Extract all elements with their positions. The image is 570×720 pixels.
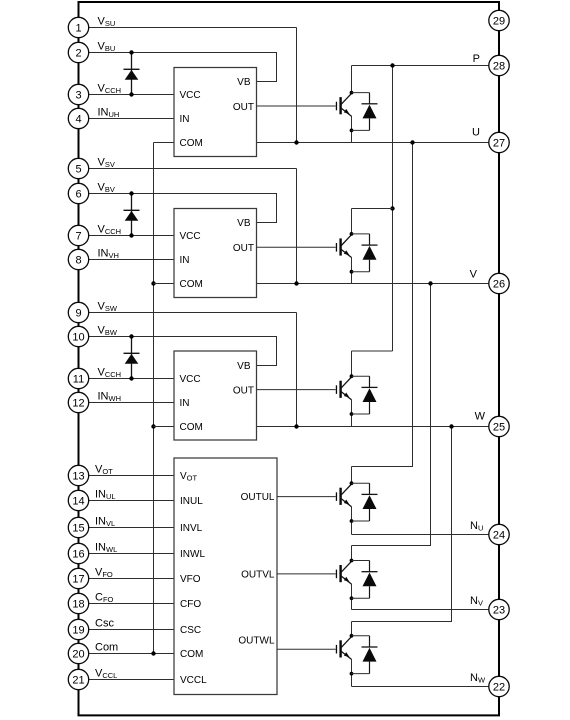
junction P bus / V high collector bbox=[390, 206, 394, 210]
wire INWL pin16 to LVIC bbox=[79, 553, 175, 555]
svg-text:VCCL: VCCL bbox=[180, 675, 207, 686]
wire VSU vertical to node U bbox=[296, 28, 298, 143]
wire INVL pin15 to LVIC bbox=[79, 527, 175, 529]
svg-text:COM: COM bbox=[180, 138, 203, 149]
wire VSW vertical to node W bbox=[296, 313, 298, 427]
wire VSW pin9 to VS vertical bbox=[79, 312, 297, 314]
svg-text:OUTWL: OUTWL bbox=[238, 636, 275, 647]
pin 19 bbox=[68, 619, 88, 639]
module outline frame bbox=[79, 2, 500, 715]
op-amp U1 (U-phase HVIC) high-side gate driver block bbox=[174, 68, 257, 157]
svg-text:INVL: INVL bbox=[95, 515, 115, 528]
pin 16 bbox=[68, 543, 88, 563]
transistor Q6 (W low) bbox=[277, 622, 353, 687]
pin 11 bbox=[68, 368, 88, 388]
wire COM pin20 to LVIC bbox=[79, 653, 175, 655]
svg-text:VSU: VSU bbox=[98, 15, 116, 28]
op-amp U3 (W-phase HVIC) high-side gate driver block bbox=[174, 351, 257, 440]
svg-text:U: U bbox=[472, 127, 480, 139]
pin 4 bbox=[68, 108, 88, 128]
op-amp U4 low-side LVIC block bbox=[174, 458, 277, 695]
wire node P to pin28 bbox=[352, 65, 500, 67]
wire INWH pin12 to driver IN bbox=[79, 402, 175, 404]
svg-text:23: 23 bbox=[493, 605, 505, 617]
svg-text:CFO: CFO bbox=[180, 599, 201, 610]
svg-text:17: 17 bbox=[72, 574, 84, 586]
svg-text:VCCL: VCCL bbox=[95, 667, 117, 680]
wire node NV to pin23 bbox=[352, 609, 500, 611]
svg-text:W: W bbox=[475, 411, 486, 423]
pin 8 bbox=[68, 249, 88, 269]
transistor Q1 (U high) bbox=[257, 66, 354, 143]
pin 17 bbox=[68, 568, 88, 588]
wire CFO pin18 to LVIC bbox=[79, 603, 175, 605]
pin 29 bbox=[489, 10, 509, 30]
svg-text:OUTVL: OUTVL bbox=[241, 569, 275, 580]
diode D6 freewheel bbox=[352, 636, 378, 674]
pin 25 bbox=[489, 416, 509, 436]
svg-text:VB: VB bbox=[237, 218, 251, 229]
svg-text:OUTUL: OUTUL bbox=[241, 492, 275, 503]
wire V high collector branch bbox=[352, 208, 393, 210]
svg-text:4: 4 bbox=[75, 114, 81, 126]
transistor Q3 (W high) bbox=[257, 351, 354, 427]
svg-text:VFO: VFO bbox=[180, 574, 201, 585]
svg-text:10: 10 bbox=[72, 332, 84, 344]
svg-text:COM: COM bbox=[180, 279, 203, 290]
svg-text:VCCH: VCCH bbox=[98, 82, 122, 95]
svg-text:CFO: CFO bbox=[95, 591, 114, 604]
svg-text:VOT: VOT bbox=[95, 463, 113, 476]
transistor Q2 (V high) bbox=[257, 209, 354, 284]
junction COM bus / pin20 Com bbox=[151, 651, 155, 655]
pin 6 bbox=[68, 183, 88, 203]
svg-text:VCC: VCC bbox=[180, 90, 201, 101]
wire W high collector branch bbox=[352, 350, 393, 352]
svg-text:14: 14 bbox=[72, 496, 84, 508]
svg-text:24: 24 bbox=[493, 530, 505, 542]
wire VOT pin13 to LVIC bbox=[79, 475, 175, 477]
transistor Q4 (U low) bbox=[277, 467, 353, 535]
svg-text:9: 9 bbox=[75, 308, 81, 320]
pin 24 bbox=[489, 524, 509, 544]
wire VSV pin5 to VS vertical bbox=[79, 168, 297, 170]
svg-text:IN: IN bbox=[180, 398, 190, 409]
pin 28 bbox=[489, 55, 509, 75]
wire node NU to pin24 bbox=[352, 534, 500, 536]
svg-text:INUH: INUH bbox=[98, 106, 120, 119]
diode D3 freewheel bbox=[352, 376, 378, 414]
svg-text:VCCH: VCCH bbox=[98, 366, 122, 379]
svg-text:19: 19 bbox=[72, 625, 84, 637]
svg-text:OUT: OUT bbox=[233, 243, 254, 254]
wire VSU pin1 to VS vertical bbox=[79, 27, 297, 29]
junction P bus / node P bbox=[390, 63, 394, 67]
svg-text:VSV: VSV bbox=[98, 156, 115, 169]
svg-text:NU: NU bbox=[470, 520, 483, 533]
wire VBU pin2 to VB elbow of U driver bbox=[79, 53, 277, 82]
diode D1 freewheel bbox=[352, 93, 378, 131]
svg-text:INWH: INWH bbox=[98, 390, 122, 403]
svg-text:NW: NW bbox=[470, 672, 486, 685]
svg-text:26: 26 bbox=[493, 279, 505, 291]
svg-text:INWL: INWL bbox=[95, 541, 117, 554]
pin 26 bbox=[489, 273, 509, 293]
bootstrap diode DBW (VCCH-VBW) bbox=[124, 334, 140, 380]
svg-text:20: 20 bbox=[72, 649, 84, 661]
pin 14 bbox=[68, 490, 88, 510]
wire V low collector bus bbox=[352, 284, 431, 546]
pin 23 bbox=[489, 599, 509, 619]
svg-text:28: 28 bbox=[493, 61, 505, 73]
pin 2 bbox=[68, 42, 88, 62]
wire VCCH(V) pin7 to driver VCC bbox=[79, 235, 175, 237]
svg-text:13: 13 bbox=[72, 471, 84, 483]
wire VCCH(U) pin3 to driver VCC bbox=[79, 94, 175, 96]
pin 18 bbox=[68, 593, 88, 613]
wire P bus vertical bbox=[392, 66, 394, 352]
wire VSV vertical to node V bbox=[296, 169, 298, 284]
pin 15 bbox=[68, 517, 88, 537]
pin 10 bbox=[68, 326, 88, 346]
wire W low collector bus bbox=[352, 427, 452, 622]
junction node W / W low bus bbox=[449, 424, 453, 428]
svg-text:VSW: VSW bbox=[98, 300, 118, 313]
svg-text:VB: VB bbox=[237, 361, 251, 372]
svg-text:VFO: VFO bbox=[95, 566, 113, 579]
wire VFO pin17 to LVIC bbox=[79, 578, 175, 580]
wire INUL pin14 to LVIC bbox=[79, 500, 175, 502]
svg-text:V: V bbox=[470, 269, 478, 281]
svg-text:VOT: VOT bbox=[180, 471, 198, 483]
pin 21 bbox=[68, 669, 88, 689]
svg-text:11: 11 bbox=[73, 374, 84, 386]
wire VCCL pin21 to LVIC bbox=[79, 679, 175, 681]
pin 13 bbox=[68, 465, 88, 485]
svg-text:Csc: Csc bbox=[95, 617, 114, 629]
svg-text:INVL: INVL bbox=[180, 523, 203, 534]
wire node W : COM bus to pin25 bbox=[154, 426, 500, 428]
svg-text:INWL: INWL bbox=[180, 549, 205, 560]
wire INUH pin4 to driver IN bbox=[79, 118, 175, 120]
svg-text:P: P bbox=[473, 53, 480, 65]
bootstrap diode DBU (VCCH-VBU) bbox=[124, 50, 140, 96]
svg-text:COM: COM bbox=[180, 649, 203, 660]
transistor Q5 (V low) bbox=[277, 546, 353, 610]
svg-text:7: 7 bbox=[75, 231, 81, 243]
svg-text:16: 16 bbox=[72, 549, 84, 561]
diode D5 freewheel bbox=[352, 561, 378, 599]
svg-text:1: 1 bbox=[75, 23, 81, 35]
svg-text:COM: COM bbox=[180, 422, 203, 433]
svg-text:3: 3 bbox=[75, 90, 81, 102]
pin 5 bbox=[68, 158, 88, 178]
pin 3 bbox=[68, 84, 88, 104]
pin 20 bbox=[68, 643, 88, 663]
svg-text:INUL: INUL bbox=[180, 496, 203, 507]
pin 7 bbox=[68, 225, 88, 245]
svg-text:INUL: INUL bbox=[95, 488, 116, 501]
svg-text:Com: Com bbox=[95, 641, 118, 653]
svg-text:12: 12 bbox=[72, 398, 84, 410]
wire INVH pin8 to driver IN bbox=[79, 259, 175, 261]
wire node U : COM bus to pin27 bbox=[154, 142, 500, 144]
svg-text:NV: NV bbox=[470, 595, 483, 608]
svg-text:IN: IN bbox=[180, 114, 190, 125]
svg-text:VBU: VBU bbox=[98, 40, 116, 53]
pin 12 bbox=[68, 392, 88, 412]
junction node U / U low bus bbox=[410, 140, 414, 144]
junction COM bus / W driver COM bbox=[151, 424, 155, 428]
svg-text:6: 6 bbox=[75, 189, 81, 201]
svg-text:29: 29 bbox=[493, 16, 505, 28]
svg-text:VBW: VBW bbox=[98, 324, 118, 337]
svg-text:8: 8 bbox=[75, 255, 81, 267]
svg-text:VCC: VCC bbox=[180, 231, 201, 242]
svg-text:CSC: CSC bbox=[180, 625, 201, 636]
svg-text:21: 21 bbox=[72, 675, 84, 687]
svg-text:5: 5 bbox=[75, 164, 81, 176]
svg-text:VCCH: VCCH bbox=[98, 223, 122, 236]
svg-text:VCC: VCC bbox=[180, 374, 201, 385]
bootstrap diode DBV (VCCH-VBV) bbox=[124, 191, 140, 237]
wire node V : COM bus to pin26 bbox=[154, 283, 500, 285]
svg-text:2: 2 bbox=[75, 48, 81, 60]
wire VCCH(W) pin11 to driver VCC bbox=[79, 378, 175, 380]
pin 27 bbox=[489, 132, 509, 152]
svg-text:OUT: OUT bbox=[233, 102, 254, 113]
wire U low collector bus bbox=[352, 143, 413, 467]
svg-text:18: 18 bbox=[72, 599, 84, 611]
svg-text:27: 27 bbox=[493, 138, 505, 150]
svg-text:INVH: INVH bbox=[98, 247, 119, 260]
diode D4 freewheel bbox=[352, 483, 378, 521]
svg-text:15: 15 bbox=[72, 523, 84, 535]
pin 9 bbox=[68, 302, 88, 322]
svg-text:VB: VB bbox=[237, 77, 251, 88]
svg-text:25: 25 bbox=[493, 422, 505, 434]
svg-text:IN: IN bbox=[180, 255, 190, 266]
diode D2 freewheel bbox=[352, 234, 378, 272]
junction node V / V low bus bbox=[428, 281, 432, 285]
wire VBW pin10 to VB elbow of W driver bbox=[79, 337, 277, 366]
wire COM bus (left vertical) bbox=[153, 143, 155, 654]
svg-text:22: 22 bbox=[493, 682, 505, 694]
op-amp U2 (V-phase HVIC) high-side gate driver block bbox=[174, 209, 257, 298]
svg-text:OUT: OUT bbox=[233, 385, 254, 396]
svg-text:VBV: VBV bbox=[98, 181, 115, 194]
pin 22 bbox=[489, 676, 509, 696]
pin 1 bbox=[68, 17, 88, 37]
wire CSC pin19 to LVIC bbox=[79, 629, 175, 631]
junction COM bus / V driver COM bbox=[151, 281, 155, 285]
wire VBV pin6 to VB elbow of V driver bbox=[79, 194, 277, 223]
wire node NW to pin22 bbox=[352, 686, 500, 688]
